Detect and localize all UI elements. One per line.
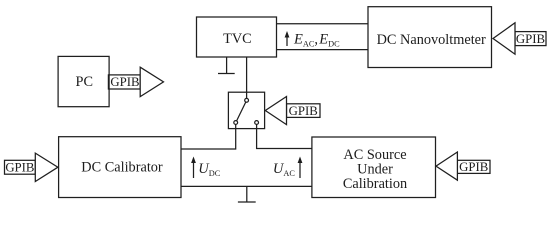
block TVC [197, 17, 277, 57]
svg-text:UAC: UAC [273, 161, 295, 178]
svg-text:EAC, EDC: EAC, EDC [293, 32, 340, 49]
svg-text:GPIB: GPIB [459, 160, 488, 174]
wire TVC to nanovoltmeter (bottom) [277, 49, 369, 51]
svg-text:DC Nanovoltmeter: DC Nanovoltmeter [377, 32, 486, 48]
GPIB arrow into AC source (pointing left) [436, 152, 490, 180]
svg-text:GPIB: GPIB [5, 161, 34, 175]
switch right contact [255, 121, 259, 125]
GPIB arrow into DC calibrator (pointing right) [5, 153, 58, 181]
switch box [228, 92, 264, 128]
GPIB arrow into nanovoltmeter (pointing left) [493, 23, 546, 54]
switch left contact [234, 121, 238, 125]
svg-text:PC: PC [76, 74, 94, 90]
svg-text:Calibration: Calibration [343, 176, 407, 192]
block DC Calibrator [59, 137, 181, 198]
wire switch left contact to DC calibrator [181, 124, 236, 149]
GPIB arrow into switch (pointing left) [265, 97, 320, 125]
label E_AC , E_DC [293, 32, 340, 49]
wire TVC to nanovoltmeter (top) [277, 23, 369, 25]
arrow up for E labels [285, 31, 290, 46]
svg-text:GPIB: GPIB [289, 104, 318, 118]
ground on bottom wire [238, 186, 256, 202]
svg-text:GPIB: GPIB [516, 32, 545, 46]
GPIB arrow from PC (pointing right) [108, 67, 163, 96]
switch common contact (top) [245, 98, 249, 102]
svg-text:TVC: TVC [223, 31, 252, 47]
svg-text:UDC: UDC [198, 161, 220, 178]
block PC [58, 56, 109, 106]
wire switch right contact to AC source [257, 124, 312, 148]
arrow up for U_AC [298, 157, 303, 179]
ground below TVC [218, 57, 235, 74]
block DC Nanovoltmeter [368, 7, 492, 68]
switch lever [237, 102, 246, 121]
wire TVC to switch [246, 57, 248, 98]
svg-text:DC Calibrator: DC Calibrator [81, 160, 163, 176]
arrow up for U_DC [191, 157, 196, 179]
svg-text:GPIB: GPIB [110, 75, 139, 89]
block AC Source Under Calibration [312, 137, 436, 198]
bottom wire DC calibrator to AC source [181, 185, 312, 187]
